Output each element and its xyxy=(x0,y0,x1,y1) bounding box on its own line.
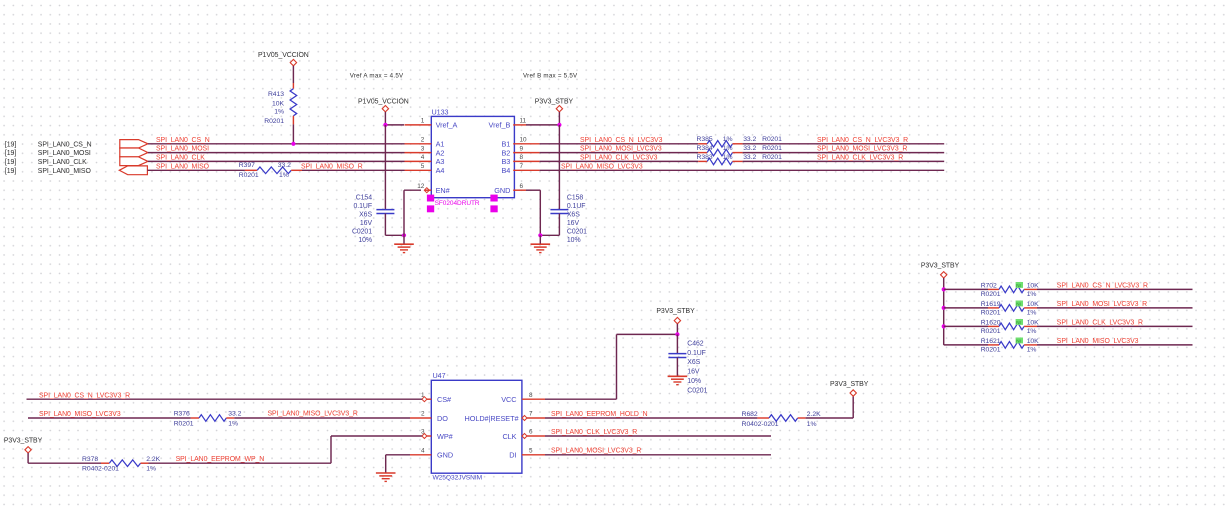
svg-text:1%: 1% xyxy=(807,421,817,428)
wire EN# to ground xyxy=(404,189,421,191)
junction bank row 1 xyxy=(942,287,946,291)
svg-text:6: 6 xyxy=(520,183,524,190)
wire SPI_LAN0_MISO_LVC3V3 xyxy=(540,169,945,171)
svg-text:GND: GND xyxy=(437,451,453,460)
resistor R384 33.2 xyxy=(698,152,707,154)
no-connect diamond CLK pin 6 xyxy=(522,434,527,439)
svg-text:HOLD#|RESET#: HOLD#|RESET# xyxy=(464,414,519,423)
svg-text:R0201: R0201 xyxy=(762,145,782,152)
power symbol P3V3_STBY (Vref_B) xyxy=(556,106,562,112)
wire P3V3_STBY bank vertical xyxy=(943,278,945,345)
NI marker (R1620) xyxy=(1016,319,1023,325)
no-connect diamond WP# pin 3 xyxy=(422,434,427,439)
wire R413 to SPI_LAN0_CS_N xyxy=(292,124,294,143)
svg-text:B3: B3 xyxy=(501,157,510,166)
svg-text:P3V3_STBY: P3V3_STBY xyxy=(830,381,869,388)
svg-text:33.2: 33.2 xyxy=(228,411,241,418)
svg-text:33.2: 33.2 xyxy=(278,162,291,169)
resistor R702 10K xyxy=(988,288,999,290)
svg-text:4: 4 xyxy=(421,154,425,161)
off-page connector SPI_LAN0_CS_N (input) xyxy=(120,140,148,148)
wire VCC to P3V3 rail xyxy=(545,398,617,400)
wire SPI_LAN0_MOSI xyxy=(148,152,405,154)
off-page connector SPI_LAN0_MISO (output) xyxy=(119,166,147,175)
wire bank row R1619 right xyxy=(1037,307,1193,309)
capacitor C462 0.1UF xyxy=(668,353,686,355)
svg-text:B1: B1 xyxy=(501,140,510,149)
svg-text:5: 5 xyxy=(529,447,533,454)
svg-text:R1619: R1619 xyxy=(981,301,1001,308)
wire bank row R1620 right xyxy=(1037,325,1193,327)
svg-text:SPI_LAN0_MOSI_LVC3V3_R: SPI_LAN0_MOSI_LVC3V3_R xyxy=(817,146,907,153)
svg-text:[19]: [19] xyxy=(5,141,16,148)
svg-text:R413: R413 xyxy=(268,91,284,98)
svg-text:11: 11 xyxy=(520,117,527,124)
svg-text:SPI_LAN0_MOSI_LVC3V3_R: SPI_LAN0_MOSI_LVC3V3_R xyxy=(551,448,641,455)
wire C462 to ground xyxy=(676,358,678,376)
svg-text:SPI_LAN0_MISO_LVC3V3: SPI_LAN0_MISO_LVC3V3 xyxy=(39,411,121,418)
capacitor C158 0.1UF xyxy=(550,209,568,211)
svg-text:2: 2 xyxy=(421,137,425,144)
wire SPI_LAN0_CS_N_LVC3V3 xyxy=(540,143,699,145)
svg-text:33.2: 33.2 xyxy=(743,136,756,143)
wire SPI_LAN0_CS_N xyxy=(148,143,405,145)
junction C158/GND ground node xyxy=(538,233,542,237)
svg-text:SPI_LAN0_MISO_LVC3V3: SPI_LAN0_MISO_LVC3V3 xyxy=(1057,338,1139,345)
svg-text:VCC: VCC xyxy=(501,395,516,404)
svg-text:A3: A3 xyxy=(436,157,445,166)
no-connect diamond EN# pin 12 xyxy=(424,188,429,193)
svg-text:SPI_LAN0_MOSI: SPI_LAN0_MOSI xyxy=(156,146,209,153)
svg-text:GND: GND xyxy=(494,186,510,195)
svg-text:SPI_LAN0_MISO_R: SPI_LAN0_MISO_R xyxy=(301,163,363,170)
no-connect diamond HOLD# pin 7 xyxy=(522,416,527,421)
svg-text:SPI_LAN0_MOSI: SPI_LAN0_MOSI xyxy=(38,150,91,157)
power symbol P3V3_STBY (R682) xyxy=(850,390,856,396)
svg-text:C0201: C0201 xyxy=(567,229,587,236)
svg-text:R376: R376 xyxy=(174,411,190,418)
wire SPI_LAN0_MOSI_LVC3V3 xyxy=(540,152,699,154)
svg-text:SPI_LAN0_CLK: SPI_LAN0_CLK xyxy=(156,154,205,161)
wire bank row R702 left xyxy=(944,288,988,290)
no-connect diamond CS# pin 1 xyxy=(422,397,427,402)
svg-text:4: 4 xyxy=(421,447,425,454)
svg-text:U47: U47 xyxy=(433,371,446,380)
svg-text:R0201: R0201 xyxy=(174,421,194,428)
resistor R376 33.2 xyxy=(191,417,199,419)
svg-text:C462: C462 xyxy=(687,340,703,347)
svg-text:U133: U133 xyxy=(432,107,449,116)
wire C154 to ground xyxy=(384,214,386,236)
svg-text:0.1UF: 0.1UF xyxy=(687,350,706,357)
wire SPI_LAN0_MOSI_LVC3V3_R xyxy=(743,152,945,154)
off-page connector SPI_LAN0_MOSI (input) xyxy=(120,148,148,157)
wire ground stem right xyxy=(539,235,541,243)
junction Vref_B rail xyxy=(557,123,561,127)
resistor R682 2.2K xyxy=(757,417,769,419)
svg-text:SPI_LAN0_CLK_LVC3V3_R: SPI_LAN0_CLK_LVC3V3_R xyxy=(551,429,637,436)
svg-text:SPI_LAN0_CS_N_LVC3V3_R: SPI_LAN0_CS_N_LVC3V3_R xyxy=(817,137,908,144)
svg-text:CLK: CLK xyxy=(502,432,516,441)
ground (left of U133) xyxy=(394,243,414,245)
svg-text:R0201: R0201 xyxy=(762,154,782,161)
wire SPI_LAN0_EEPROM_HOLD_N xyxy=(545,417,757,419)
wire SPI_LAN0_CS_N_LVC3V3_R (bottom) xyxy=(27,398,422,400)
resistor R1619 10K xyxy=(988,307,999,309)
svg-text:X6S: X6S xyxy=(687,359,700,366)
svg-text:R1621: R1621 xyxy=(981,338,1001,345)
svg-text:12: 12 xyxy=(417,183,425,190)
resistor R385 33.2 xyxy=(698,143,707,145)
svg-text:P3V3_STBY: P3V3_STBY xyxy=(4,438,43,445)
power symbol P1V05_VCCION (R413) xyxy=(290,59,296,65)
svg-text:SPI_LAN0_CLK_LVC3V3_R: SPI_LAN0_CLK_LVC3V3_R xyxy=(1057,320,1143,327)
wire SPI_LAN0_CLK xyxy=(148,160,405,162)
svg-text:SPI_LAN0_MISO: SPI_LAN0_MISO xyxy=(156,163,210,170)
ground (right of U133) xyxy=(531,243,551,245)
power symbol P1V05_VCCION (Vref_A) xyxy=(382,106,388,112)
wire Vref rail to C154 xyxy=(384,125,386,209)
resistor R383 33.2 xyxy=(698,160,707,162)
svg-text:1%: 1% xyxy=(274,109,284,116)
svg-text:1%: 1% xyxy=(1027,328,1037,335)
wire SPI_LAN0_MISO_LVC3V3 (bottom) xyxy=(28,417,191,419)
svg-text:WP#: WP# xyxy=(437,432,454,441)
svg-text:SPI_LAN0_CLK: SPI_LAN0_CLK xyxy=(38,159,87,166)
wire bank row R1621 left xyxy=(944,344,988,346)
svg-text:1%: 1% xyxy=(1027,347,1037,354)
resistor R1620 10K xyxy=(988,325,999,327)
svg-text:7: 7 xyxy=(529,411,533,418)
svg-text:10K: 10K xyxy=(1027,301,1039,308)
wire bank row R1621 right xyxy=(1037,344,1193,346)
svg-text:P3V3_STBY: P3V3_STBY xyxy=(535,98,574,105)
svg-text:C158: C158 xyxy=(567,195,583,202)
svg-text:R378: R378 xyxy=(82,456,98,463)
svg-text:SPI_LAN0_MOSI_LVC3V3: SPI_LAN0_MOSI_LVC3V3 xyxy=(580,146,662,153)
svg-text:Vref B max = 5.5V: Vref B max = 5.5V xyxy=(523,73,578,80)
svg-text:P3V3_STBY: P3V3_STBY xyxy=(921,262,960,269)
svg-text:16V: 16V xyxy=(567,220,580,227)
svg-text:DO: DO xyxy=(437,414,448,423)
DNI pad marker U133 GND A xyxy=(490,195,497,202)
svg-text:1%: 1% xyxy=(723,154,733,161)
ground (U47) xyxy=(376,472,396,474)
resistor R378 2.2K xyxy=(101,462,109,464)
wire bank row R1620 left xyxy=(944,325,988,327)
svg-text:R682: R682 xyxy=(742,411,758,418)
resistor R397 33.2 xyxy=(245,169,257,171)
svg-text:W25Q32JVSNIM: W25Q32JVSNIM xyxy=(433,474,483,481)
svg-text:SPI_LAN0_CS_N: SPI_LAN0_CS_N xyxy=(156,137,210,144)
svg-text:2.2K: 2.2K xyxy=(807,411,821,418)
wire GND pin to ground (U47) xyxy=(386,454,410,456)
svg-text:7: 7 xyxy=(520,163,524,170)
svg-text:0.1UF: 0.1UF xyxy=(353,203,372,210)
wire SPI_LAN0_CS_N_LVC3V3_R xyxy=(743,143,945,145)
svg-text:1%: 1% xyxy=(279,172,289,179)
wire ground stem left xyxy=(403,235,405,243)
svg-text:10%: 10% xyxy=(687,378,701,385)
power symbol P3V3_STBY (C462) xyxy=(674,317,680,323)
wire P1V05_VCCION to R413 xyxy=(292,66,294,83)
svg-text:X6S: X6S xyxy=(567,212,580,219)
svg-text:33.2: 33.2 xyxy=(743,154,756,161)
junction VCC/C462 xyxy=(675,332,679,336)
junction bank row 3 xyxy=(942,324,946,328)
DNI pad marker U133 GND B xyxy=(490,205,497,212)
svg-text:P3V3_STBY: P3V3_STBY xyxy=(656,308,695,315)
off-page connector SPI_LAN0_CLK (input) xyxy=(120,157,148,166)
wire SPI_LAN0_CLK_LVC3V3_R (bottom) xyxy=(545,435,771,437)
svg-text:NI: NI xyxy=(1016,302,1021,307)
NI marker (R1621) xyxy=(1016,338,1023,344)
svg-text:1%: 1% xyxy=(1027,291,1037,298)
NI marker (R702) xyxy=(1016,282,1023,288)
svg-text:[19]: [19] xyxy=(5,159,16,166)
svg-text:R0201: R0201 xyxy=(981,291,1001,298)
svg-text:1: 1 xyxy=(421,117,425,124)
wire P1V05_VCCION down xyxy=(384,112,386,125)
svg-text:C154: C154 xyxy=(356,195,372,202)
svg-text:[19]: [19] xyxy=(5,168,16,175)
svg-text:A4: A4 xyxy=(436,166,445,175)
wire junction to C462 xyxy=(676,334,678,353)
svg-text:16V: 16V xyxy=(360,220,373,227)
svg-text:SF0204DRUTR: SF0204DRUTR xyxy=(435,200,480,207)
junction C154/EN ground node xyxy=(402,233,406,237)
svg-text:10K: 10K xyxy=(1027,338,1039,345)
svg-text:SPI_LAN0_CS_N_LVC3V3_R: SPI_LAN0_CS_N_LVC3V3_R xyxy=(1057,283,1148,290)
svg-text:R0201: R0201 xyxy=(239,172,259,179)
svg-text:P1V05_VCCION: P1V05_VCCION xyxy=(258,52,309,59)
svg-text:SPI_LAN0_CLK_LVC3V3: SPI_LAN0_CLK_LVC3V3 xyxy=(580,154,658,161)
wire SPI_LAN0_MISO_R xyxy=(302,169,405,171)
svg-text:16V: 16V xyxy=(687,369,700,376)
svg-text:R0201: R0201 xyxy=(981,328,1001,335)
wire bank row R702 right xyxy=(1037,288,1193,290)
svg-text:SPI_LAN0_CLK_LVC3V3_R: SPI_LAN0_CLK_LVC3V3_R xyxy=(817,154,903,161)
svg-text:SPI_LAN0_MISO_LVC3V3_R: SPI_LAN0_MISO_LVC3V3_R xyxy=(268,411,358,418)
wire P3V3_STBY down to Vref_B xyxy=(558,112,560,125)
svg-text:8: 8 xyxy=(529,392,533,399)
DNI pad marker U133 bottom-left B xyxy=(427,205,434,212)
svg-text:R0402-0201: R0402-0201 xyxy=(82,466,119,473)
wire GND pin to ground xyxy=(526,189,540,191)
wire SPI_LAN0_MOSI_LVC3V3_R (bottom) xyxy=(545,454,771,456)
svg-text:R384: R384 xyxy=(697,145,713,152)
svg-text:R1620: R1620 xyxy=(981,320,1001,327)
svg-text:SPI_LAN0_MISO: SPI_LAN0_MISO xyxy=(38,168,92,175)
svg-text:B2: B2 xyxy=(501,148,510,157)
wire P3V3_STBY to R378 xyxy=(27,453,29,463)
wire rail to C158 xyxy=(558,125,560,209)
svg-text:10K: 10K xyxy=(1027,320,1039,327)
svg-text:1%: 1% xyxy=(146,466,156,473)
junction Vref_A rail xyxy=(383,123,387,127)
svg-text:SPI_LAN0_EEPROM_HOLD_N: SPI_LAN0_EEPROM_HOLD_N xyxy=(551,411,648,418)
power symbol P3V3_STBY (pull-up bank) xyxy=(941,272,947,278)
svg-text:10%: 10% xyxy=(567,237,581,244)
svg-text:2.2K: 2.2K xyxy=(146,456,160,463)
svg-text:NI: NI xyxy=(1016,339,1021,344)
NI marker (R1619) xyxy=(1016,301,1023,307)
svg-text:X6S: X6S xyxy=(359,212,372,219)
level shifter U133 xyxy=(431,116,514,197)
svg-text:0.1UF: 0.1UF xyxy=(567,203,586,210)
svg-text:R0402-0201: R0402-0201 xyxy=(742,421,779,428)
svg-text:R702: R702 xyxy=(981,283,997,290)
svg-text:SPI_LAN0_CS_N: SPI_LAN0_CS_N xyxy=(38,141,92,148)
junction R413/CS_N xyxy=(291,142,295,146)
svg-text:6: 6 xyxy=(529,429,533,436)
svg-text:R0201: R0201 xyxy=(762,136,782,143)
svg-text:8: 8 xyxy=(520,154,524,161)
svg-text:A1: A1 xyxy=(436,140,445,149)
svg-text:R0201: R0201 xyxy=(981,310,1001,317)
svg-text:SPI_LAN0_EEPROM_WP_N: SPI_LAN0_EEPROM_WP_N xyxy=(176,456,265,463)
svg-text:9: 9 xyxy=(520,145,524,152)
svg-text:1%: 1% xyxy=(1027,310,1037,317)
svg-text:10: 10 xyxy=(520,137,528,144)
svg-text:[19]: [19] xyxy=(5,150,16,157)
svg-text:DI: DI xyxy=(509,451,516,460)
svg-text:NI: NI xyxy=(1016,283,1021,288)
svg-text:B4: B4 xyxy=(501,166,510,175)
power symbol P3V3_STBY (WP) xyxy=(25,447,31,453)
capacitor C154 0.1UF xyxy=(376,209,394,211)
wire SPI_LAN0_EEPROM_WP_N xyxy=(149,462,332,464)
svg-text:10K: 10K xyxy=(1027,283,1039,290)
svg-text:Vref_A: Vref_A xyxy=(436,121,458,130)
junction bank row 2 xyxy=(942,306,946,310)
svg-text:1%: 1% xyxy=(723,136,733,143)
wire SPI_LAN0_CLK_LVC3V3 xyxy=(540,160,699,162)
wire bank row R1619 left xyxy=(944,307,988,309)
resistor R413 10K xyxy=(292,83,294,89)
svg-text:10%: 10% xyxy=(358,237,372,244)
wire R682 to P3V3_STBY xyxy=(806,417,854,419)
wire SPI_LAN0_MISO xyxy=(147,169,245,171)
svg-text:R0201: R0201 xyxy=(981,347,1001,354)
svg-text:1%: 1% xyxy=(723,145,733,152)
svg-text:C0201: C0201 xyxy=(687,387,707,394)
wire Vref_A xyxy=(385,124,404,126)
svg-text:R385: R385 xyxy=(697,136,713,143)
svg-text:1%: 1% xyxy=(228,421,238,428)
svg-text:CS#: CS# xyxy=(437,395,452,404)
wire P3V3_STBY to junction xyxy=(676,324,678,335)
svg-text:C0201: C0201 xyxy=(352,229,372,236)
wire SPI_LAN0_CLK_LVC3V3_R xyxy=(743,160,945,162)
svg-text:R0201: R0201 xyxy=(264,118,284,125)
svg-text:SPI_LAN0_MOSI_LVC3V3_R: SPI_LAN0_MOSI_LVC3V3_R xyxy=(1057,301,1147,308)
svg-text:SPI_LAN0_CS_N_LVC3V3: SPI_LAN0_CS_N_LVC3V3 xyxy=(580,137,663,144)
svg-text:A2: A2 xyxy=(436,148,445,157)
svg-text:Vref_B: Vref_B xyxy=(489,121,511,130)
svg-text:EN#: EN# xyxy=(436,186,451,195)
svg-text:R397: R397 xyxy=(239,162,255,169)
svg-text:NI: NI xyxy=(1016,320,1021,325)
svg-text:5: 5 xyxy=(421,163,425,170)
SPI flash U47 xyxy=(431,380,522,473)
wire Vref_B xyxy=(526,124,559,126)
svg-text:3: 3 xyxy=(421,145,425,152)
svg-text:10K: 10K xyxy=(272,101,284,108)
ground (C462) xyxy=(668,375,688,377)
svg-text:SPI_LAN0_CS_N_LVC3V3_R: SPI_LAN0_CS_N_LVC3V3_R xyxy=(39,392,130,399)
DNI pad marker U133 bottom-left A xyxy=(427,195,434,202)
svg-text:2: 2 xyxy=(421,411,425,418)
svg-text:33.2: 33.2 xyxy=(743,145,756,152)
wire C158 to ground xyxy=(558,214,560,236)
svg-text:Vref A max = 4.5V: Vref A max = 4.5V xyxy=(350,73,404,80)
resistor R1621 10K xyxy=(988,344,999,346)
wire SPI_LAN0_MISO_LVC3V3_R (bottom) xyxy=(234,417,410,419)
svg-text:P1V05_VCCION: P1V05_VCCION xyxy=(358,98,409,105)
svg-text:SPI_LAN0_MISO_LVC3V3: SPI_LAN0_MISO_LVC3V3 xyxy=(561,163,643,170)
svg-text:R383: R383 xyxy=(697,154,713,161)
